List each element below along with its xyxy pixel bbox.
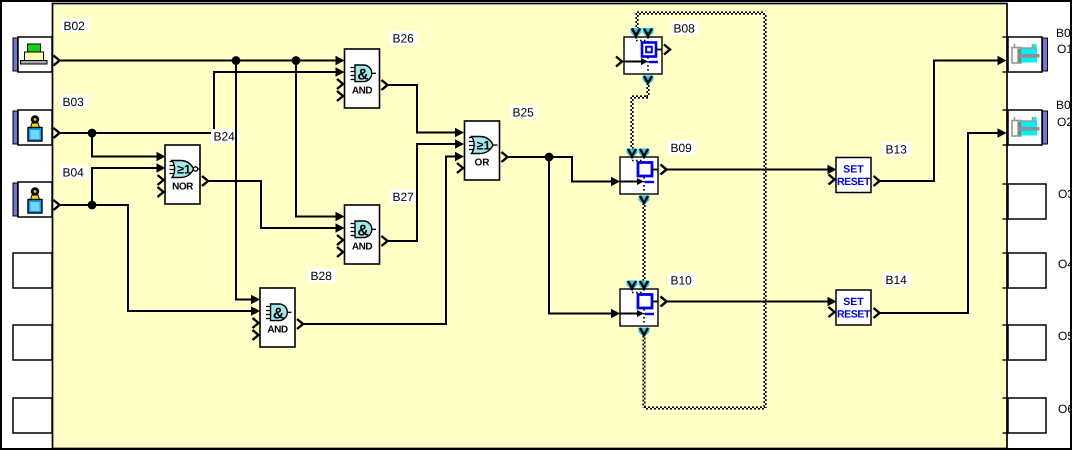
svg-text:RESET: RESET	[837, 176, 871, 188]
node junction on B02 net at x=236	[232, 56, 241, 65]
label B08	[671, 21, 699, 35]
SET/RESET block B13	[836, 158, 871, 193]
wire: B03 net to NOR B24.in1	[92, 133, 157, 157]
AND gate B27	[345, 205, 380, 264]
svg-text:RESET: RESET	[837, 309, 871, 321]
svg-text:≥1: ≥1	[177, 163, 191, 177]
wire: OR B25 output to B09 input	[502, 152, 508, 162]
flag below B09	[639, 196, 650, 205]
NOR gate B24	[165, 145, 200, 204]
svg-text:O3: O3	[1058, 187, 1072, 201]
wire: input I2 (B03 net) to B26.in2	[54, 128, 60, 138]
svg-text:AND: AND	[352, 242, 372, 253]
empty output slot O3	[1003, 184, 1047, 219]
node junction on B03 net	[88, 129, 97, 138]
svg-text:O4: O4	[1058, 257, 1072, 271]
svg-text:OR: OR	[475, 158, 491, 169]
unconnected input pin B25	[457, 163, 463, 173]
wire: B25 net down to B10 input	[549, 157, 612, 314]
svg-text:B25: B25	[513, 106, 535, 120]
svg-text:O5: O5	[1058, 329, 1072, 343]
empty output slot O4	[1003, 253, 1047, 288]
output icon O1 (cylinder)	[1003, 37, 1048, 72]
svg-text:NOR: NOR	[172, 182, 194, 193]
unconnected input pins B28	[253, 318, 259, 328]
unconnected input pin B13	[829, 175, 835, 185]
wire: input I3 (B04 net) to B28.in2	[54, 200, 60, 210]
special function block B09	[620, 157, 658, 194]
svg-text:&: &	[357, 223, 368, 240]
empty input slot 4	[13, 253, 52, 288]
svg-text:B13: B13	[886, 143, 908, 157]
output pin B08	[664, 45, 670, 55]
AND gate B26	[345, 49, 380, 108]
label B27	[390, 190, 418, 204]
special function block B10	[620, 289, 658, 326]
dotted reference line: B08 bottom to B09 top	[646, 83, 648, 97]
label B09	[668, 141, 696, 155]
label B03	[60, 95, 88, 109]
svg-text:B03: B03	[63, 95, 85, 109]
svg-text:B27: B27	[393, 190, 415, 204]
input icon I3 (sensor)	[13, 182, 52, 217]
wire: B02 net down to B27.in1	[296, 61, 336, 217]
wire: B10 output to B14.in1	[661, 297, 667, 307]
label B02	[61, 19, 89, 33]
svg-text:&: &	[357, 67, 368, 84]
output icon O2 (cylinder)	[1003, 110, 1048, 145]
svg-text:B28: B28	[311, 269, 333, 283]
wire: NOR B24 output to B27.in2	[202, 176, 208, 186]
AND gate B28	[260, 288, 295, 347]
empty output slot O5	[1003, 325, 1047, 360]
svg-text:O6: O6	[1058, 402, 1072, 416]
label B10	[668, 273, 696, 287]
svg-text:SET: SET	[843, 296, 864, 308]
svg-text:B24: B24	[214, 130, 236, 144]
input icon I1 (pushbutton)	[13, 37, 52, 72]
wire: B28 output to OR B25.in3	[297, 319, 303, 329]
svg-text:O2: O2	[1057, 115, 1072, 129]
wire: input I1 (B02 net) to B26.in1	[54, 56, 60, 66]
wire: B27 output to OR B25.in2	[382, 236, 388, 246]
flag below B10	[639, 328, 650, 337]
svg-text:B10: B10	[671, 274, 693, 288]
wire patch over B24 label	[235, 128, 237, 144]
dotted reference line: B09 bottom to B10 top	[642, 203, 644, 281]
label B04	[60, 165, 88, 179]
OR gate B25	[465, 121, 500, 180]
svg-text:B05: B05	[1056, 98, 1072, 112]
label B25	[510, 105, 538, 119]
wire: B14 output to output O2	[874, 308, 880, 318]
unconnected input pins B27	[337, 235, 343, 245]
empty input slot 5	[13, 325, 52, 360]
wire: B13 output to output O1	[874, 176, 880, 186]
svg-text:B08: B08	[674, 22, 696, 36]
svg-text:B04: B04	[63, 166, 85, 180]
svg-text:≥1: ≥1	[477, 139, 491, 153]
dotted reference line: top loop into B08	[635, 13, 637, 28]
unconnected input pins B24	[158, 175, 164, 185]
wire patch over B27 label	[416, 188, 418, 204]
wire: B09 output to B13.in1	[661, 165, 667, 175]
node junction on B04 net	[88, 201, 97, 210]
svg-text:AND: AND	[267, 325, 287, 336]
empty input slot 6	[13, 398, 52, 433]
label B28	[308, 269, 336, 283]
dotted reference line: right vertical	[763, 13, 765, 408]
flags above B08	[631, 28, 642, 37]
SET/RESET block B14	[836, 290, 871, 325]
output pin B09	[661, 165, 667, 175]
empty output slot O6	[1003, 398, 1047, 433]
svg-text:O1: O1	[1057, 42, 1072, 56]
svg-text:B02: B02	[64, 19, 86, 33]
unconnected input pins B26	[337, 79, 343, 89]
node junction on B25 output net	[545, 153, 554, 162]
svg-text:B01: B01	[1056, 26, 1072, 40]
label B13	[883, 142, 911, 156]
flags above B09	[627, 149, 638, 158]
svg-text:SET: SET	[843, 164, 864, 176]
wire: B02 net down to B28.in1	[236, 61, 252, 300]
svg-text:B26: B26	[393, 32, 415, 46]
unconnected input pin B14	[829, 307, 835, 317]
wire: B04 net to NOR B24.in2	[92, 168, 157, 205]
svg-text:AND: AND	[352, 86, 372, 97]
flags above B10	[627, 281, 638, 290]
svg-text:&: &	[273, 306, 284, 323]
node junction on B02 net at x=296	[292, 56, 301, 65]
wire: B26 output to OR B25.in1	[382, 80, 388, 90]
input pin B08	[616, 57, 622, 67]
output pin B10	[661, 297, 667, 307]
svg-text:B09: B09	[671, 141, 693, 155]
flag below B08	[643, 76, 654, 85]
label B14	[883, 273, 911, 287]
label B26	[390, 31, 418, 45]
dotted reference line: from B10 bottom	[642, 336, 644, 409]
dotted reference line: bottom horizontal	[644, 406, 765, 408]
special function block B08	[624, 37, 662, 74]
svg-text:B14: B14	[886, 273, 908, 287]
label B24	[211, 129, 239, 143]
input icon I2 (sensor)	[13, 110, 52, 145]
